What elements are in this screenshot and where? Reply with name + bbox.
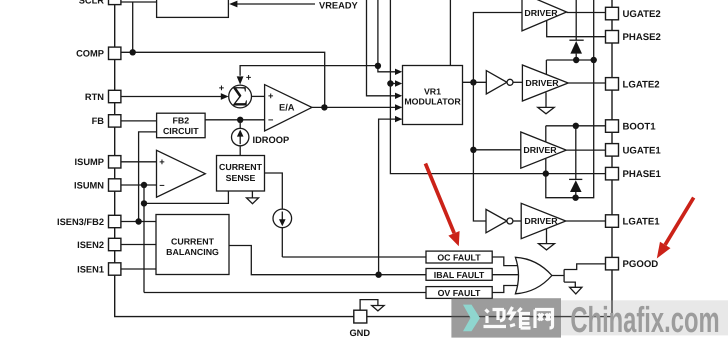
pin RTN bbox=[109, 90, 121, 102]
svg-text:SENSE: SENSE bbox=[226, 173, 256, 183]
driver UGATE2 bbox=[522, 0, 567, 31]
wire E/A output to VR1 modulator bbox=[312, 106, 402, 108]
junction ISUMN tap bbox=[141, 182, 147, 188]
wire SCLR bbox=[121, 2, 157, 52]
svg-text:+: + bbox=[159, 157, 165, 167]
svg-text:DRIVER: DRIVER bbox=[524, 216, 558, 226]
pin ISUMP bbox=[109, 156, 121, 168]
wire ISUMN tap down bbox=[144, 185, 228, 293]
wire RTN bbox=[121, 96, 222, 98]
ground GND bbox=[372, 306, 384, 311]
wire gate drive trunk bbox=[473, 13, 522, 222]
fault box OC bbox=[426, 251, 492, 263]
junction E/A output / COMP bbox=[321, 104, 327, 110]
right pins bbox=[606, 7, 619, 270]
wire VR1 output bbox=[463, 81, 487, 83]
FB2 circuit block bbox=[157, 113, 206, 138]
wire OV to OR bbox=[492, 286, 517, 293]
junction trunk UGATE1 bbox=[470, 147, 476, 153]
pin BOOT1 bbox=[606, 120, 619, 133]
svg-text:FB2: FB2 bbox=[172, 116, 189, 126]
arrowhead into summer bbox=[221, 93, 229, 100]
ground under LGATE2 driver bbox=[538, 93, 554, 114]
current source IDROOP bbox=[232, 120, 249, 156]
svg-text:ISUMN: ISUMN bbox=[74, 180, 104, 190]
pin ISEN2 bbox=[109, 238, 121, 250]
svg-text:ISEN1: ISEN1 bbox=[77, 264, 104, 274]
watermark dark box bbox=[451, 298, 561, 337]
svg-text:SCLR: SCLR bbox=[79, 0, 105, 5]
svg-text:CIRCUIT: CIRCUIT bbox=[163, 126, 199, 136]
wire UGATE2 out bbox=[567, 12, 606, 14]
wire pvcc rail bbox=[546, 60, 593, 74]
VR1 modulator block bbox=[403, 66, 463, 125]
pin UGATE1 bbox=[606, 144, 619, 157]
wire FB2 to E/A minus bbox=[205, 119, 265, 121]
svg-text:PGOOD: PGOOD bbox=[623, 259, 659, 270]
svg-text:PHASE1: PHASE1 bbox=[623, 169, 662, 180]
junction PHASE1 bbox=[543, 170, 549, 176]
IC boundary bbox=[115, 0, 612, 317]
svg-text:−: − bbox=[268, 115, 274, 125]
diode BOOT1 bbox=[569, 126, 582, 198]
svg-text:OV FAULT: OV FAULT bbox=[438, 288, 481, 298]
junction lower diode anode bbox=[572, 195, 578, 201]
wire PHASE2 bbox=[547, 21, 606, 37]
junction IBAL tap bbox=[375, 272, 381, 278]
arrowhead down into summer bbox=[237, 76, 244, 84]
wire ISEN2 bbox=[121, 244, 156, 246]
watermark chevron logo bbox=[463, 305, 480, 332]
svg-text:E/A: E/A bbox=[279, 103, 295, 113]
pin PGOOD bbox=[606, 257, 619, 270]
diode PHASE2 boot bbox=[569, 0, 583, 60]
wire LGATE1 out bbox=[566, 220, 606, 222]
junction FB2 tap bbox=[135, 218, 141, 224]
junction rail vertical bbox=[591, 57, 597, 63]
svg-text:Chinafix.com: Chinafix.com bbox=[570, 299, 719, 340]
svg-text:DRIVER: DRIVER bbox=[525, 78, 559, 88]
svg-text:UGATE2: UGATE2 bbox=[623, 9, 661, 20]
wire top vertical 1 bbox=[367, 0, 396, 96]
wire top vertical 2 bbox=[378, 0, 396, 72]
wire OC to OR bbox=[492, 257, 517, 266]
wire PHASE1 long bbox=[390, 84, 605, 174]
svg-text:Σ: Σ bbox=[232, 82, 248, 113]
pin LGATE1 bbox=[606, 215, 619, 228]
op-amp current sense amp bbox=[157, 150, 206, 197]
wire ISEN1 bbox=[121, 268, 156, 270]
svg-text:GND: GND bbox=[349, 328, 370, 338]
ground under LGATE1 driver bbox=[539, 229, 555, 250]
svg-text:UGATE1: UGATE1 bbox=[623, 145, 662, 156]
junction sigma rail bbox=[375, 63, 381, 69]
svg-text:−: − bbox=[159, 180, 165, 190]
svg-text:VREADY: VREADY bbox=[319, 0, 359, 10]
pin PHASE1 bbox=[606, 167, 619, 180]
inverter lower bbox=[486, 209, 521, 232]
pin ISEN3/FB2 bbox=[109, 215, 121, 227]
wire ISUMP bbox=[121, 161, 157, 163]
pin ISEN1 bbox=[109, 263, 121, 275]
wire GND hook bbox=[360, 300, 378, 311]
wire BOOT1 bbox=[546, 125, 606, 127]
wire summer output bbox=[252, 95, 265, 97]
wire OC fault line bbox=[282, 256, 426, 258]
wire current sense output bbox=[265, 173, 283, 209]
wire UGATE1 out bbox=[566, 149, 605, 151]
svg-text:IBAL FAULT: IBAL FAULT bbox=[434, 270, 485, 280]
watermark chinese characters bbox=[484, 307, 553, 328]
svg-text:OC FAULT: OC FAULT bbox=[437, 252, 481, 262]
ground under current sense bbox=[247, 191, 259, 204]
svg-text:CURRENT: CURRENT bbox=[219, 162, 263, 172]
wire OV fault line bbox=[144, 292, 426, 294]
wire ISUMN bbox=[121, 184, 157, 186]
pin GND bbox=[354, 310, 367, 323]
wire ISEN3/FB2 bbox=[121, 221, 156, 223]
svg-text:CURRENT: CURRENT bbox=[171, 237, 215, 247]
soft-start block (top, cut off) bbox=[157, 0, 229, 17]
junction IDROOP node bbox=[237, 117, 243, 123]
svg-text:BALANCING: BALANCING bbox=[166, 247, 219, 257]
pin PHASE2 bbox=[606, 31, 619, 44]
wire current balancing to IBAL bbox=[229, 246, 426, 275]
pin UGATE2 bbox=[606, 7, 619, 19]
svg-text:ISUMP: ISUMP bbox=[75, 157, 104, 167]
svg-text:DRIVER: DRIVER bbox=[523, 145, 557, 155]
svg-text:DRIVER: DRIVER bbox=[524, 8, 558, 18]
driver LGATE1 bbox=[521, 203, 566, 238]
fault box IBAL bbox=[426, 269, 492, 281]
wire VR1 input5 riser bbox=[379, 119, 402, 275]
ground PGOOD pulldown bbox=[570, 287, 582, 294]
junction tap bbox=[141, 200, 147, 206]
junction BOOT1 bbox=[573, 123, 579, 129]
left pins bbox=[109, 0, 121, 275]
driver UGATE1 bbox=[521, 132, 567, 168]
driver LGATE2 bbox=[522, 65, 568, 101]
svg-text:ISEN2: ISEN2 bbox=[77, 240, 104, 250]
svg-text:PHASE2: PHASE2 bbox=[623, 32, 661, 43]
wire OR output to PGOOD bbox=[552, 264, 606, 287]
red arrow to PGOOD bbox=[657, 198, 694, 259]
junction COMP/SCLR bbox=[130, 49, 136, 55]
svg-text:+: + bbox=[268, 91, 274, 101]
watermark light bar bbox=[561, 300, 728, 335]
svg-text:LGATE2: LGATE2 bbox=[623, 79, 660, 90]
wire UGATE1 driver input bbox=[473, 149, 520, 151]
wire IBAL to OR bbox=[492, 274, 520, 276]
inverter upper bbox=[486, 71, 522, 94]
pin SCLR bbox=[109, 0, 121, 5]
wire top vertical 4 into VR1 bbox=[449, 0, 451, 66]
current source OC bbox=[273, 209, 292, 257]
wire COMP bbox=[121, 52, 325, 107]
wire FB2 lower tap bbox=[139, 132, 157, 222]
current sense block bbox=[217, 156, 265, 192]
svg-text:+: + bbox=[246, 72, 252, 82]
wire VREADY line bbox=[236, 3, 315, 5]
svg-text:BOOT1: BOOT1 bbox=[623, 122, 657, 133]
op-amp E/A bbox=[265, 85, 312, 131]
junction VR1 output bbox=[470, 79, 476, 85]
wire summer top input bbox=[240, 66, 378, 76]
svg-text:MODULATOR: MODULATOR bbox=[404, 97, 461, 107]
wire long vertical right bbox=[546, 0, 594, 198]
pin ISUMN bbox=[109, 179, 121, 191]
wire LGATE2 out bbox=[568, 82, 605, 84]
current balancing block bbox=[156, 215, 229, 275]
svg-text:LGATE1: LGATE1 bbox=[623, 217, 661, 228]
svg-text:COMP: COMP bbox=[76, 49, 104, 59]
pin FB bbox=[109, 115, 121, 127]
VREADY arrowhead bbox=[229, 1, 237, 8]
wire FB bbox=[121, 120, 157, 122]
wire top vertical 3 bbox=[390, 0, 395, 84]
fault box OV bbox=[426, 287, 492, 299]
VR1 input arrowheads bbox=[395, 69, 402, 75]
svg-text:ISEN3/FB2: ISEN3/FB2 bbox=[57, 217, 104, 227]
svg-text:FB: FB bbox=[92, 116, 105, 126]
right pin labels bbox=[623, 9, 662, 270]
red arrow to OC FAULT bbox=[425, 164, 459, 247]
pin LGATE2 bbox=[606, 78, 619, 91]
left pin labels bbox=[57, 0, 104, 274]
svg-text:+: + bbox=[219, 83, 225, 93]
svg-text:RTN: RTN bbox=[85, 92, 104, 102]
svg-text:VR1: VR1 bbox=[424, 87, 441, 97]
pin COMP bbox=[109, 47, 121, 59]
junction diode anode bbox=[573, 57, 579, 63]
svg-text:IDROOP: IDROOP bbox=[253, 135, 290, 145]
summer sigma circle bbox=[229, 85, 252, 108]
junction phase rail bbox=[387, 80, 393, 86]
OR gate bbox=[515, 257, 552, 294]
